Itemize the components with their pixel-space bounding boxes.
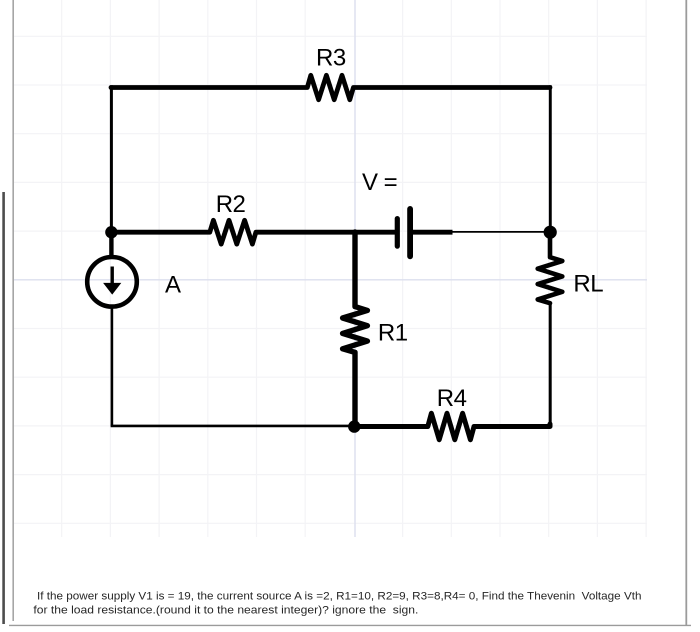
node C junction dot [348, 420, 360, 432]
wire: bottom thick wire with resistor R4 zigzag, node C to bottom-right corner [354, 413, 550, 439]
wire: node B to resistor RL zigzag and bottom lead [538, 232, 563, 303]
node B junction dot [544, 226, 557, 239]
svg-text:R2: R2 [216, 191, 246, 218]
svg-text:R3: R3 [316, 44, 346, 71]
wire: right vertical from top-right corner to node B [549, 85, 552, 232]
wire: battery to node B thin part [453, 231, 551, 233]
svg-text:A: A [165, 271, 181, 298]
svg-text:V =: V = [362, 169, 397, 196]
wire: middle wire with resistor R2 zigzag, node A to battery [111, 220, 395, 244]
wire: bottom-left thin wire to node C [111, 425, 354, 428]
wire: battery to node B thick part [413, 230, 453, 235]
battery V1 long plate [407, 209, 413, 256]
current source A arrow [110, 267, 113, 287]
svg-text:RL: RL [573, 270, 603, 297]
svg-text:for the load resistance.(round: for the load resistance.(round it to the… [33, 604, 418, 616]
svg-text:If the power supply V1 is = 19: If the power supply V1 is = 19, the curr… [37, 590, 642, 602]
node A junction dot [105, 226, 117, 238]
wire: node A to current source top [109, 232, 113, 258]
wire: top wire with resistor R3 zigzag [111, 75, 550, 99]
wire: RL bottom lead [549, 303, 552, 426]
battery V1 short plate [395, 219, 400, 247]
current source A circle [87, 257, 137, 307]
wire: current source bottom lead [111, 308, 114, 426]
wire: R1 branch with resistor R1 zigzag [343, 232, 368, 427]
svg-text:R4: R4 [437, 385, 467, 412]
wire: left vertical from top-left corner to node A [110, 85, 113, 232]
svg-text:R1: R1 [378, 319, 408, 346]
